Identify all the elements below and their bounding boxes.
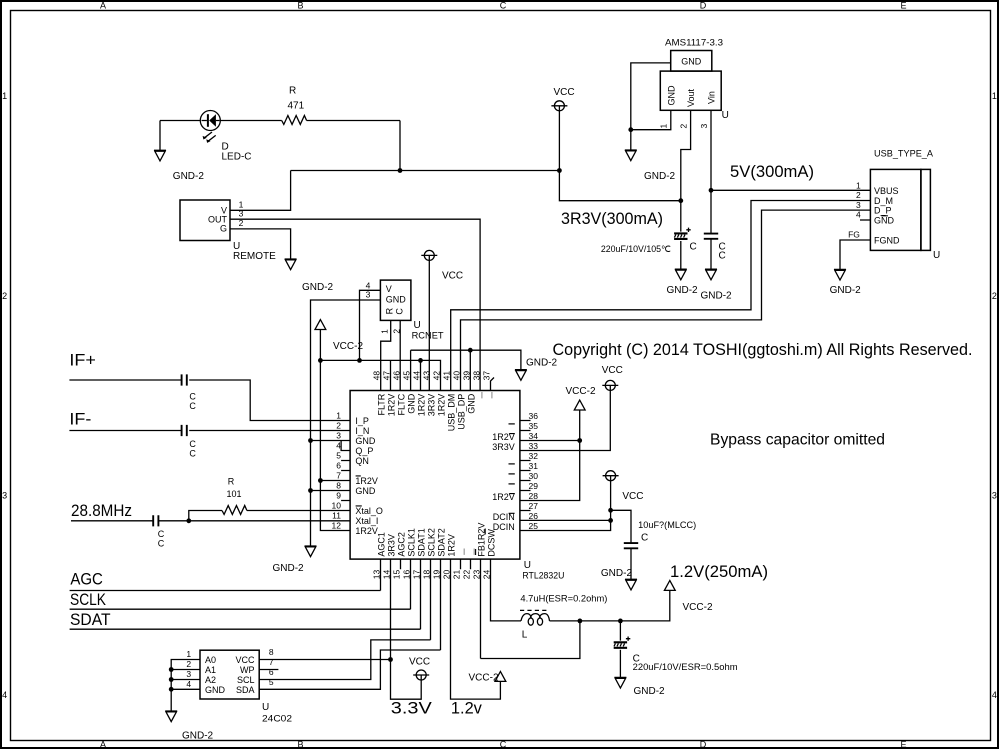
svg-text:2: 2 xyxy=(186,659,191,669)
EEPROM U 24C02 xyxy=(200,650,292,723)
svg-text:36: 36 xyxy=(529,411,539,421)
svg-text:39: 39 xyxy=(461,371,471,381)
REMOTE pin 1 xyxy=(230,171,291,211)
svg-text:28: 28 xyxy=(529,491,539,501)
RCNET pin 4 (V) xyxy=(360,280,381,360)
wire GND pins 45/39 to GND-2 xyxy=(411,348,521,391)
svg-text:6: 6 xyxy=(336,461,341,471)
svg-text:3: 3 xyxy=(856,200,861,210)
ground GND-2 (RCNET) xyxy=(273,546,317,574)
capacitor C C (28.8MHz) xyxy=(153,515,165,548)
svg-text:SCL: SCL xyxy=(237,675,255,685)
svg-text:RCNET: RCNET xyxy=(412,330,445,340)
ground GND-2 (10uF) xyxy=(601,568,637,590)
RCNET pin 2 wire to IC pin 46 xyxy=(391,320,401,390)
svg-text:GND-2: GND-2 xyxy=(273,563,305,574)
svg-text:24: 24 xyxy=(481,569,491,579)
wire 1.2V rail xyxy=(550,590,670,623)
EEPROM pin 6 SCL wire to IC pin 18 xyxy=(259,559,430,679)
ground GND-2 (24C02) xyxy=(165,711,213,742)
svg-text:SDAT: SDAT xyxy=(70,610,111,629)
svg-text:1: 1 xyxy=(992,91,997,101)
RCNET pin 1 wire to IC pin 48 xyxy=(379,320,390,390)
svg-text:GND-2: GND-2 xyxy=(830,285,862,296)
svg-text:1R2V: 1R2V xyxy=(446,534,456,557)
svg-text:1R2V: 1R2V xyxy=(436,394,446,417)
svg-text:GND: GND xyxy=(666,85,676,106)
svg-text:C: C xyxy=(690,242,697,253)
text copyright xyxy=(553,340,973,359)
svg-text:C: C xyxy=(189,392,196,402)
svg-text:5V(300mA): 5V(300mA) xyxy=(730,162,814,181)
svg-text:3: 3 xyxy=(699,124,709,129)
svg-text:FB1R2V: FB1R2V xyxy=(476,523,486,557)
wire VCC-2 to pins 34/28 xyxy=(520,410,582,501)
svg-text:1R2V: 1R2V xyxy=(355,526,378,536)
USB pin FG FGND xyxy=(840,230,870,270)
svg-text:C: C xyxy=(189,449,196,459)
svg-text:SDAT2: SDAT2 xyxy=(436,528,446,556)
svg-text:7: 7 xyxy=(336,471,341,481)
svg-text:R: R xyxy=(228,476,235,486)
ground GND-2 (ceramic cap) xyxy=(701,269,733,301)
capacitor C 10uF?(MLCC) xyxy=(611,510,697,579)
IC pins 38/37 blank label dashes xyxy=(482,392,492,398)
svg-text:E: E xyxy=(900,1,906,11)
svg-text:6: 6 xyxy=(269,667,274,677)
svg-text:3R3V: 3R3V xyxy=(492,442,515,452)
svg-text:IF-: IF- xyxy=(69,410,91,429)
svg-text:38: 38 xyxy=(471,371,481,381)
svg-text:26: 26 xyxy=(529,511,539,521)
net label 1.2V(250mA) xyxy=(670,562,768,581)
svg-text:U: U xyxy=(722,110,729,121)
network U RCNET xyxy=(380,280,444,340)
svg-text:Bypass capacitor omitted: Bypass capacitor omitted xyxy=(710,432,885,449)
svg-text:DCIN: DCIN xyxy=(493,522,515,532)
RCNET pin 3 (GND) xyxy=(311,289,381,546)
AMS1117 pin 3 (Vin) 5V input xyxy=(699,110,714,192)
svg-text:D_M: D_M xyxy=(874,196,893,206)
net label IF+ xyxy=(69,351,96,370)
svg-text:1: 1 xyxy=(186,649,191,659)
svg-text:40: 40 xyxy=(451,371,461,381)
wire FB to IC pin 23 xyxy=(481,559,580,658)
svg-text:1: 1 xyxy=(379,329,389,334)
svg-text:3: 3 xyxy=(366,289,371,299)
svg-text:C: C xyxy=(189,439,196,449)
capacitor C 220uF/10V/105C xyxy=(601,201,697,270)
svg-text:C: C xyxy=(394,308,404,315)
svg-text:220uF/10V/105℃: 220uF/10V/105℃ xyxy=(601,244,671,254)
svg-text:15: 15 xyxy=(391,569,401,579)
ground GND-2 (AMS1117) xyxy=(625,150,676,182)
svg-text:DCSW: DCSW xyxy=(486,529,496,557)
wire LED to resistor xyxy=(220,120,281,122)
IC right pin numbers and labels (36..25) xyxy=(492,411,538,532)
svg-text:Q_P: Q_P xyxy=(355,446,373,456)
net label AGC xyxy=(70,570,103,589)
svg-text:R: R xyxy=(384,307,394,314)
svg-text:GND-2: GND-2 xyxy=(667,285,699,296)
svg-text:101: 101 xyxy=(227,489,242,499)
EEPROM pin 8 VCC wire xyxy=(259,647,390,660)
connector U REMOTE xyxy=(180,200,276,262)
svg-text:19: 19 xyxy=(431,569,441,579)
USB pin 2 D_M wire to IC pin 41 xyxy=(451,190,871,390)
svg-text:GND: GND xyxy=(874,215,895,225)
wire 5V to USB VBUS xyxy=(711,189,870,191)
svg-text:GND-2: GND-2 xyxy=(634,686,666,697)
wire VCC-2 vertical to pins 7/12 xyxy=(318,330,350,531)
wire SDAT to pin 17 xyxy=(70,559,421,629)
svg-text:A: A xyxy=(100,1,106,11)
svg-text:VBUS: VBUS xyxy=(874,186,899,196)
wire SCLK to pin 16 xyxy=(70,559,411,609)
net label SCLK xyxy=(70,590,107,609)
svg-text:471: 471 xyxy=(288,101,305,112)
capacitor C C (ceramic on 5V) xyxy=(704,190,726,269)
svg-text:1R2V: 1R2V xyxy=(416,394,426,417)
EEPROM pins 1-4 to GND xyxy=(169,649,200,711)
svg-text:I_P: I_P xyxy=(355,416,369,426)
svg-text:4: 4 xyxy=(856,210,861,220)
svg-text:29: 29 xyxy=(529,481,539,491)
power VCC-2 (left) xyxy=(315,320,363,352)
svg-text:C: C xyxy=(158,529,165,539)
svg-text:27: 27 xyxy=(529,501,539,511)
svg-text:22: 22 xyxy=(461,569,471,579)
svg-text:RTL2832U: RTL2832U xyxy=(522,571,564,581)
svg-text:D: D xyxy=(700,740,707,750)
power VCC (middle, to pin 43) xyxy=(421,250,463,390)
svg-text:A1: A1 xyxy=(205,665,216,675)
svg-text:2: 2 xyxy=(856,190,861,200)
IC pin 3/4/8 GND stubs xyxy=(308,438,350,493)
svg-text:GND: GND xyxy=(355,436,376,446)
svg-text:4: 4 xyxy=(2,690,7,700)
wire IC pin 14 3R3V to VCC xyxy=(388,559,421,699)
svg-text:32: 32 xyxy=(529,451,539,461)
ground GND-2 (220uF output cap) xyxy=(614,677,665,697)
wire VCC to pins 26/25 DCIN xyxy=(520,481,613,531)
svg-text:SDA: SDA xyxy=(236,685,255,695)
ground GND-2 (LED) xyxy=(154,150,204,182)
svg-text:4: 4 xyxy=(992,690,997,700)
svg-text:2: 2 xyxy=(2,291,7,301)
net label IF- xyxy=(69,410,91,429)
svg-text:1.2V(250mA): 1.2V(250mA) xyxy=(670,562,768,581)
wire 28.8MHz input xyxy=(71,518,191,523)
svg-text:C: C xyxy=(158,538,165,548)
svg-text:30: 30 xyxy=(529,471,539,481)
svg-text:WP: WP xyxy=(240,665,255,675)
svg-text:VCC: VCC xyxy=(409,656,430,667)
svg-text:GND-2: GND-2 xyxy=(601,568,633,579)
USB pin 1 VBUS xyxy=(856,180,861,190)
ground GND-2 (FGND) xyxy=(830,269,862,296)
AMS1117 pin 1 (GND) loop xyxy=(628,63,670,150)
wire IC pin 20 1R2V to VCC-2 xyxy=(451,559,501,699)
LED D LED-C xyxy=(200,111,251,163)
svg-text:B: B xyxy=(297,740,303,750)
net label SDAT xyxy=(70,610,111,629)
svg-text:1: 1 xyxy=(2,91,7,101)
power VCC (right lower, DCIN) xyxy=(603,471,644,502)
svg-text:A0: A0 xyxy=(205,655,216,665)
svg-text:D: D xyxy=(700,1,707,11)
svg-text:25: 25 xyxy=(529,521,539,531)
svg-text:37: 37 xyxy=(481,371,491,381)
svg-text:QN: QN xyxy=(355,456,369,466)
wire VCC-2 rail y360 xyxy=(320,358,440,391)
svg-text:18: 18 xyxy=(421,569,431,579)
IC U RTL2832U body xyxy=(350,391,564,581)
svg-text:AMS1117-3.3: AMS1117-3.3 xyxy=(665,38,723,48)
svg-text:5: 5 xyxy=(269,677,274,687)
svg-text:C: C xyxy=(500,1,507,11)
svg-text:GND: GND xyxy=(681,57,702,67)
power VCC-2 (1.2V rail) xyxy=(664,581,713,614)
svg-text:U: U xyxy=(524,560,531,571)
svg-text:SDAT1: SDAT1 xyxy=(416,528,426,556)
svg-text:USB_DP: USB_DP xyxy=(456,394,466,430)
svg-text:AGC2: AGC2 xyxy=(396,532,406,557)
svg-text:2: 2 xyxy=(678,124,688,129)
wire VCC down to 3R3V rail xyxy=(559,111,683,203)
svg-text:1R2V: 1R2V xyxy=(386,394,396,417)
svg-text:G: G xyxy=(220,224,227,234)
wire LED cathode to GND xyxy=(160,121,200,151)
svg-text:VCC: VCC xyxy=(442,271,463,282)
svg-text:R: R xyxy=(289,86,296,97)
svg-text:L: L xyxy=(522,629,528,640)
svg-text:AGC1: AGC1 xyxy=(376,532,386,557)
svg-text:B: B xyxy=(297,1,303,11)
svg-text:GND-2: GND-2 xyxy=(182,731,214,742)
svg-text:9: 9 xyxy=(336,491,341,501)
inductor L 4.7uH(ESR=0.2ohm) xyxy=(520,593,607,640)
net label 3R3V(300mA) xyxy=(561,209,663,228)
capacitor C 220uF/10V/ESR=0.5ohm xyxy=(614,621,738,678)
wire IF- xyxy=(69,430,350,432)
power VCC-2 (1.2v) xyxy=(469,672,506,684)
svg-text:3: 3 xyxy=(336,431,341,441)
svg-text:28.8MHz: 28.8MHz xyxy=(71,501,132,520)
resistor R 101 xyxy=(189,476,350,521)
svg-text:21: 21 xyxy=(451,569,461,579)
svg-text:1: 1 xyxy=(336,411,341,421)
svg-text:4.7uH(ESR=0.2ohm): 4.7uH(ESR=0.2ohm) xyxy=(520,593,607,603)
svg-text:2: 2 xyxy=(336,421,341,431)
wire AGC to pin 13 xyxy=(70,559,381,590)
USB pin 4 GND stub xyxy=(856,210,870,220)
text bypass note xyxy=(710,432,885,449)
svg-text:31: 31 xyxy=(529,461,539,471)
svg-text:1.2v: 1.2v xyxy=(451,699,482,718)
svg-text:46: 46 xyxy=(391,371,401,381)
svg-text:A2: A2 xyxy=(205,675,216,685)
svg-text:E: E xyxy=(900,740,906,750)
svg-text:U: U xyxy=(262,702,269,713)
svg-text:220uF/10V/ESR=0.5ohm: 220uF/10V/ESR=0.5ohm xyxy=(633,662,738,672)
svg-text:GND-2: GND-2 xyxy=(173,171,205,182)
svg-text:C: C xyxy=(189,401,196,411)
net label 1.2v xyxy=(451,699,482,718)
svg-text:10uF?(MLCC): 10uF?(MLCC) xyxy=(638,520,696,530)
svg-text:Xtal_O: Xtal_O xyxy=(355,506,383,516)
svg-text:24C02: 24C02 xyxy=(262,714,292,724)
svg-text:8: 8 xyxy=(336,481,341,491)
svg-text:20: 20 xyxy=(441,569,451,579)
svg-text:GND: GND xyxy=(386,295,407,305)
svg-text:VCC-2: VCC-2 xyxy=(333,341,363,352)
svg-text:2: 2 xyxy=(992,291,997,301)
EEPROM pin 7 WP stub xyxy=(259,657,278,670)
svg-text:41: 41 xyxy=(441,371,451,381)
svg-text:1: 1 xyxy=(659,124,669,129)
svg-text:VCC-2: VCC-2 xyxy=(683,602,713,613)
svg-text:VCC: VCC xyxy=(235,655,255,665)
svg-text:12: 12 xyxy=(332,521,342,531)
svg-text:11: 11 xyxy=(332,511,341,521)
capacitor C C (IF-) xyxy=(182,425,197,459)
REMOTE pin 2 (G) xyxy=(230,218,291,259)
net label 28.8MHz xyxy=(71,501,132,520)
svg-text:U: U xyxy=(933,250,940,261)
svg-text:I_N: I_N xyxy=(355,426,369,436)
wire resistor to corner x400 xyxy=(307,121,400,171)
svg-text:FG: FG xyxy=(848,230,860,240)
svg-text:USB_DM: USB_DM xyxy=(446,394,456,432)
power VCC (3.3V) xyxy=(409,656,430,680)
svg-text:43: 43 xyxy=(421,371,431,381)
svg-text:GND-2: GND-2 xyxy=(526,357,558,368)
svg-text:VCC: VCC xyxy=(602,365,623,376)
svg-text:REMOTE: REMOTE xyxy=(233,251,276,262)
svg-text:45: 45 xyxy=(401,371,411,381)
svg-text:Xtal_I: Xtal_I xyxy=(355,516,378,526)
svg-text:SCLK1: SCLK1 xyxy=(406,528,416,557)
svg-text:34: 34 xyxy=(529,431,539,441)
ground GND-2 (IC top) xyxy=(515,357,558,380)
net label 3.3V xyxy=(391,699,433,718)
AMS1117 pin 2 (Vout) xyxy=(678,110,690,200)
connector U USB_TYPE_A xyxy=(870,149,940,262)
svg-text:GND: GND xyxy=(205,685,226,695)
svg-text:16: 16 xyxy=(401,569,411,579)
svg-text:V: V xyxy=(386,284,392,294)
svg-text:1R2V: 1R2V xyxy=(355,476,378,486)
svg-text:3R3V: 3R3V xyxy=(386,534,396,557)
svg-text:3R3V(300mA): 3R3V(300mA) xyxy=(561,209,663,228)
svg-text:U: U xyxy=(414,320,421,331)
svg-text:Vout: Vout xyxy=(686,88,696,107)
svg-text:D_P: D_P xyxy=(874,206,892,216)
power VCC (right upper, pin 33) xyxy=(520,365,623,450)
svg-text:GND-2: GND-2 xyxy=(701,291,733,302)
wire horizontal y170 REMOTE V rail xyxy=(291,168,562,173)
svg-text:35: 35 xyxy=(529,421,539,431)
svg-text:Copyright (C) 2014 TOSHI(ggtos: Copyright (C) 2014 TOSHI(ggtoshi.m) All … xyxy=(553,340,973,359)
svg-text:2: 2 xyxy=(239,218,244,228)
IC left pin numbers and labels (1..12) xyxy=(332,411,383,537)
svg-text:42: 42 xyxy=(431,371,441,381)
svg-text:C: C xyxy=(719,251,726,262)
IC short pin stubs xyxy=(341,421,530,570)
svg-text:VCC-2: VCC-2 xyxy=(566,386,596,397)
svg-text:8: 8 xyxy=(269,647,274,657)
svg-text:3: 3 xyxy=(2,491,7,501)
svg-text:48: 48 xyxy=(371,371,381,381)
svg-text:3: 3 xyxy=(186,669,191,679)
svg-text:AGC: AGC xyxy=(70,570,103,589)
power VCC (top) xyxy=(551,87,574,111)
svg-text:VCC: VCC xyxy=(622,491,643,502)
svg-text:USB_TYPE_A: USB_TYPE_A xyxy=(874,149,933,159)
svg-text:FLTC: FLTC xyxy=(396,393,406,415)
ground GND-2 (220uF cap) xyxy=(667,269,699,296)
resistor R 471 xyxy=(282,86,307,125)
svg-text:3.3V: 3.3V xyxy=(391,699,433,718)
EEPROM pin 5 SDA wire to IC pin 19 xyxy=(259,559,440,689)
svg-text:17: 17 xyxy=(411,569,421,579)
svg-text:23: 23 xyxy=(471,569,481,579)
IC pin 37 stub xyxy=(491,378,495,391)
regulator U AMS1117-3.3 xyxy=(660,38,729,122)
IC pin 7 stub to VCC-2 xyxy=(320,480,350,482)
svg-text:13: 13 xyxy=(371,569,381,579)
svg-text:SCLK: SCLK xyxy=(70,590,107,609)
wire IF+ xyxy=(69,380,350,421)
wire IC pin 24 DCSW to inductor xyxy=(491,559,522,621)
IC top pin numbers and labels (48..37) xyxy=(371,371,491,432)
svg-text:LED-C: LED-C xyxy=(222,152,252,163)
svg-text:GND-2: GND-2 xyxy=(302,282,334,293)
svg-text:5: 5 xyxy=(336,451,341,461)
svg-text:C: C xyxy=(641,532,648,543)
svg-text:A: A xyxy=(100,740,106,750)
wire xtal branch to pin 11 xyxy=(189,520,350,522)
svg-text:4: 4 xyxy=(186,679,191,689)
svg-text:C: C xyxy=(500,740,507,750)
svg-text:VCC-2: VCC-2 xyxy=(469,672,499,683)
svg-text:44: 44 xyxy=(411,371,421,381)
svg-text:IF+: IF+ xyxy=(69,351,96,370)
ground GND-2 (REMOTE) xyxy=(285,259,334,293)
svg-text:1: 1 xyxy=(856,180,861,190)
svg-text:3R3V: 3R3V xyxy=(426,394,436,417)
svg-text:Vin: Vin xyxy=(707,91,717,104)
capacitor C C (IF+) xyxy=(182,374,197,411)
svg-text:14: 14 xyxy=(381,569,391,579)
power VCC-2 (right of IC) xyxy=(566,386,596,410)
svg-text:GND: GND xyxy=(355,486,376,496)
svg-text:GND-2: GND-2 xyxy=(644,171,676,182)
svg-text:10: 10 xyxy=(332,501,342,511)
svg-text:FLTR: FLTR xyxy=(376,393,386,415)
svg-text:7: 7 xyxy=(269,657,274,667)
USB pin 3 D_P wire to IC pin 40 xyxy=(461,200,871,391)
svg-text:3: 3 xyxy=(992,491,997,501)
REMOTE pin 3 (OUT) wire to IC pin 38 xyxy=(230,209,480,391)
svg-text:GND: GND xyxy=(406,393,416,414)
net label 5V(300mA) xyxy=(730,162,814,181)
svg-text:GND: GND xyxy=(466,393,476,414)
svg-text:FGND: FGND xyxy=(874,235,900,245)
svg-text:47: 47 xyxy=(381,371,391,381)
svg-text:SCLK2: SCLK2 xyxy=(426,528,436,557)
